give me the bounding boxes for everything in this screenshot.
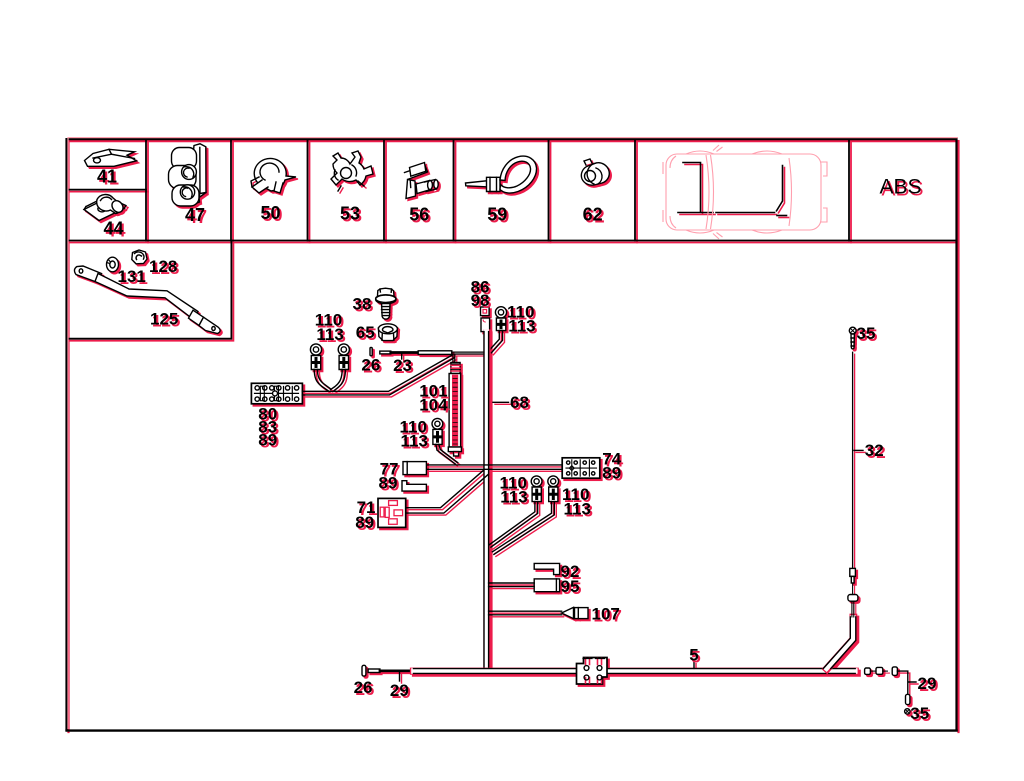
pink border accent — [68, 138, 958, 729]
car outline top view — [663, 145, 827, 239]
black art pass — [67, 139, 957, 730]
red shadow pass — [67, 139, 957, 730]
table bottom border — [65, 729, 957, 731]
